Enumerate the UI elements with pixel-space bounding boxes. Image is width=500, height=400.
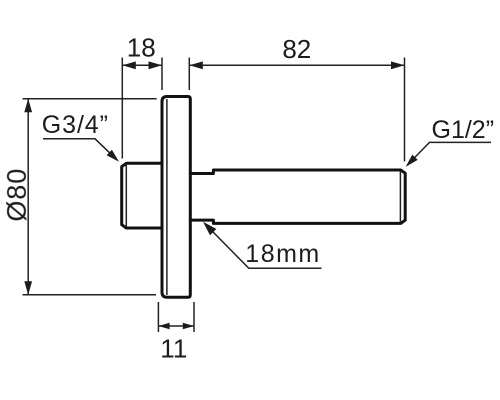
right pipe end chamfer line <box>399 171 401 223</box>
svg-text:G3/4”: G3/4” <box>42 111 109 139</box>
dimension line 18 <box>122 64 162 66</box>
extension line right of 11 <box>193 302 195 332</box>
svg-text:18: 18 <box>127 32 156 62</box>
dimension line D80 <box>27 99 29 295</box>
dimension 18 <box>122 58 162 159</box>
svg-text:G1/2”: G1/2” <box>432 116 495 144</box>
arrowhead D80 top <box>24 99 32 113</box>
left pipe chamfer line <box>125 165 127 227</box>
arrowhead 18 left <box>122 61 136 69</box>
dimension diameter 80 <box>23 99 157 295</box>
arrowhead 18mm <box>203 222 216 236</box>
extension line left of 18 <box>121 58 123 159</box>
dimension line 82 <box>189 64 404 66</box>
arrowhead 82 right <box>391 61 405 69</box>
extension line left of 11 <box>157 302 159 332</box>
left pipe G3/4 outline <box>122 163 162 228</box>
right pipe outline <box>190 170 405 223</box>
flange face chamfer line <box>166 99 168 295</box>
arrowhead D80 bottom <box>24 281 32 295</box>
extension line top of D80 <box>23 98 157 100</box>
svg-text:82: 82 <box>282 34 311 64</box>
svg-text:11: 11 <box>160 334 187 364</box>
arrowhead 82 left <box>189 61 203 69</box>
arrowhead 11 left <box>158 323 169 329</box>
dimension 82 <box>189 58 404 162</box>
arrowhead G3/4 <box>107 150 119 162</box>
arrowhead G1/2 <box>406 155 418 167</box>
dimension line 11 <box>158 325 194 327</box>
arrowhead 11 right <box>183 323 194 329</box>
leader line G1/2 <box>408 142 491 164</box>
extension line right of 82 <box>404 58 406 162</box>
arrowhead 18 right <box>149 61 163 69</box>
dimension 11 <box>158 302 194 332</box>
extension line bottom of D80 <box>23 294 157 296</box>
extension line left of 82 <box>188 58 190 91</box>
svg-text:Ø80: Ø80 <box>2 168 32 222</box>
leader line G3/4 <box>43 139 117 160</box>
svg-text:18mm: 18mm <box>245 240 320 268</box>
extension line right of 18 <box>161 58 163 91</box>
flange outline <box>162 97 190 298</box>
leader line 18mm <box>206 225 322 269</box>
